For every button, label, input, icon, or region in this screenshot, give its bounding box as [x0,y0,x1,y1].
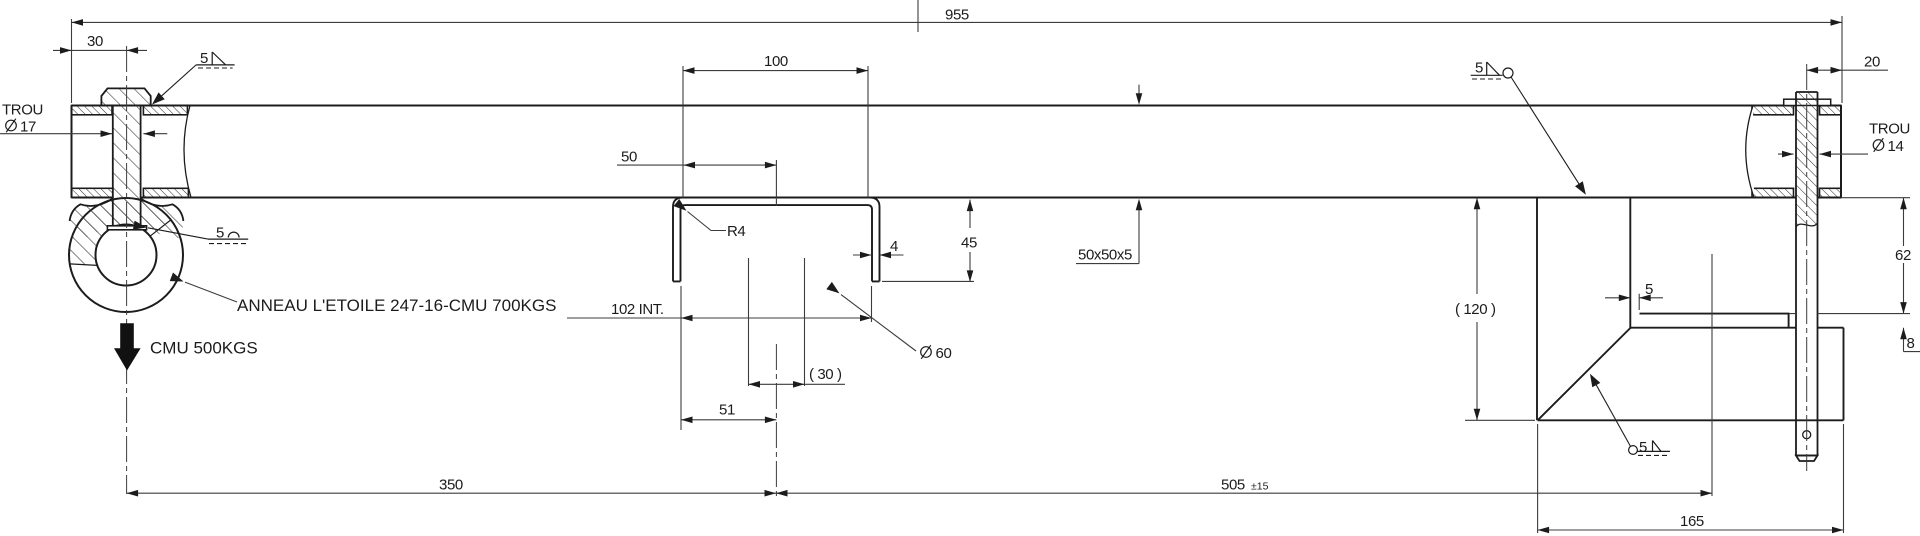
svg-text:165: 165 [1680,513,1704,530]
svg-text:51: 51 [719,402,735,419]
svg-text:14: 14 [1888,138,1904,155]
svg-text:45: 45 [961,235,977,252]
svg-text:TROU: TROU [1869,121,1910,138]
svg-text:60: 60 [936,345,952,362]
svg-text:102 INT.: 102 INT. [611,301,664,318]
svg-text:TROU: TROU [2,102,43,119]
svg-text:50: 50 [621,149,637,166]
svg-text:8: 8 [1907,335,1915,352]
svg-text:5: 5 [1639,439,1647,456]
svg-text:505: 505 [1221,477,1245,494]
svg-text:( 120 ): ( 120 ) [1455,301,1496,318]
svg-text:20: 20 [1864,54,1880,71]
svg-text:955: 955 [945,7,969,24]
svg-text:CMU 500KGS: CMU 500KGS [150,339,258,358]
svg-text:100: 100 [764,53,788,70]
svg-text:350: 350 [439,477,463,494]
svg-text:62: 62 [1895,247,1911,264]
svg-text:5: 5 [1645,281,1653,298]
svg-text:±15: ±15 [1251,481,1269,493]
svg-text:( 30 ): ( 30 ) [809,366,842,383]
svg-text:50x50x5: 50x50x5 [1078,247,1132,264]
svg-text:4: 4 [890,238,898,255]
svg-text:5: 5 [1475,60,1483,77]
svg-text:R4: R4 [727,223,745,240]
svg-text:30: 30 [87,33,103,50]
svg-text:17: 17 [20,118,36,135]
svg-text:ANNEAU L'ETOILE 247-16-CMU 700: ANNEAU L'ETOILE 247-16-CMU 700KGS [237,296,556,315]
